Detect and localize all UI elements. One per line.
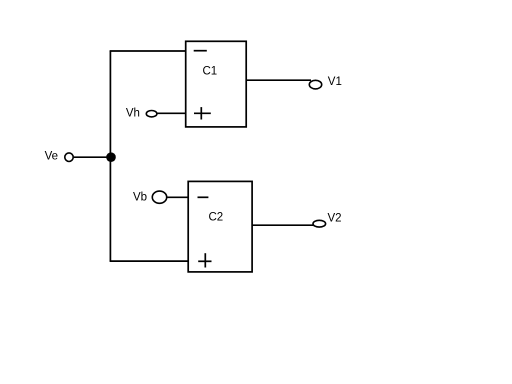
svg-text:Ve: Ve [45,151,58,163]
wire C2 output to V2 terminal [252,224,313,226]
wire Vh terminal to C1 plus input [158,112,186,114]
wire Vb terminal to C2 minus input [167,196,188,198]
C2 plus input symbol [198,253,211,267]
comparator C2 [188,181,252,272]
svg-text:C2: C2 [209,211,224,223]
wire C1 output to V1 terminal [246,79,311,81]
svg-text:Vb: Vb [133,192,147,204]
wire bus to C2 plus input [110,260,189,262]
svg-text:C1: C1 [203,66,218,78]
node junction dot [106,152,116,162]
wire Ve terminal to node [74,156,111,158]
terminal Vb [152,191,166,203]
C2 minus input symbol [198,196,209,198]
comparator C1 [186,41,247,127]
C1 minus input symbol [194,50,207,52]
terminal Vh [146,111,157,117]
wire bus to C1 minus input [110,50,185,52]
C1 plus input symbol [194,107,211,119]
wire vertical bus [109,51,111,261]
terminal V2 [313,220,326,227]
terminal V1 [309,80,321,89]
svg-text:V2: V2 [328,213,342,225]
svg-text:V1: V1 [328,76,342,88]
terminal Ve [65,153,73,162]
svg-text:Vh: Vh [126,107,140,119]
